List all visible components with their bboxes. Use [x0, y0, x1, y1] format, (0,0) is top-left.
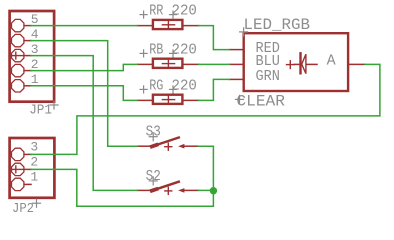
resistor RB	[137, 59, 198, 68]
switch S2	[137, 182, 198, 195]
wire net BLU: RB to LED BLU pin	[199, 63, 230, 65]
svg-text:LED_RGB: LED_RGB	[244, 16, 311, 34]
JP2 pin numbers	[30, 140, 38, 185]
svg-text:5: 5	[31, 12, 39, 27]
LED pin GRN	[230, 78, 244, 80]
CLEAR text origin cross	[236, 95, 244, 103]
svg-text:JP2: JP2	[12, 202, 34, 217]
svg-text:1: 1	[31, 72, 39, 87]
svg-text:220: 220	[172, 41, 197, 58]
svg-text:A: A	[327, 52, 336, 69]
svg-text:RB: RB	[149, 41, 163, 58]
svg-text:220: 220	[172, 3, 197, 20]
resistor RG	[137, 95, 198, 104]
JP2 text origin cross	[33, 199, 41, 207]
switch S3	[137, 138, 198, 151]
JP1 pin numbers	[31, 12, 39, 87]
wire net SW common: JP2 pin2 to switches	[31, 146, 213, 206]
wire net RED: RR to LED RED pin	[199, 26, 230, 50]
LED_RGB text origin cross	[240, 28, 248, 36]
svg-text:CLEAR: CLEAR	[236, 92, 285, 110]
wire net SW common: S2 right lead	[199, 189, 214, 191]
svg-text:2: 2	[31, 57, 39, 72]
JP1 text origin cross	[50, 101, 58, 109]
svg-text:GRN: GRN	[256, 68, 280, 85]
LED pin BLU	[230, 63, 244, 65]
LED U1 LED_RGB	[230, 33, 366, 91]
svg-text:220: 220	[172, 77, 197, 94]
LED pin A	[348, 63, 365, 65]
JP1 origin cross	[12, 55, 24, 57]
wire net A: LED A pin to JP2 pin3	[31, 64, 380, 154]
junction dot	[210, 187, 217, 194]
svg-text:1: 1	[30, 170, 38, 185]
diode D1	[294, 63, 299, 65]
wire net GRN: RG to LED GRN pin	[199, 79, 230, 100]
svg-text:JP1: JP1	[29, 104, 52, 119]
LED pin names	[256, 40, 336, 85]
svg-text:2: 2	[30, 155, 38, 170]
JP2 origin cross	[12, 168, 24, 170]
wire net BLU: JP1 pin2 to RB	[31, 64, 137, 70]
connector JP1	[10, 11, 55, 102]
svg-text:4: 4	[31, 27, 39, 42]
wire net S2: JP1 pin3 to switch S2	[31, 56, 137, 191]
svg-text:RG: RG	[149, 77, 163, 94]
wire net GRN: JP1 pin1 to RG	[31, 86, 137, 101]
wire net RED: JP1 pin5 to RR	[31, 25, 137, 27]
resistor RR	[137, 20, 198, 29]
svg-text:RR: RR	[149, 3, 163, 20]
LED pin RED	[230, 49, 244, 51]
connector JP2	[10, 138, 55, 198]
svg-text:3: 3	[31, 42, 39, 57]
svg-text:3: 3	[30, 140, 38, 155]
diode symbol origin cross	[287, 64, 295, 66]
wire net S3: JP1 pin4 to switch S3	[31, 41, 137, 147]
